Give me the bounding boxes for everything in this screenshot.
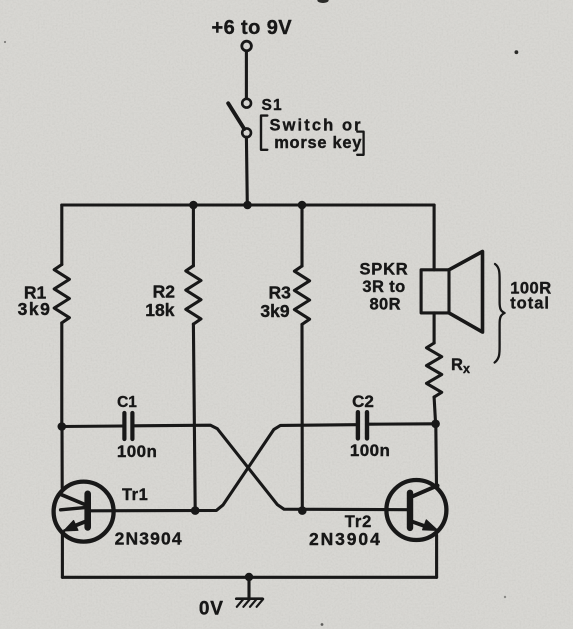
- capacitor C1: [124, 413, 132, 439]
- resistor R2: [186, 266, 201, 324]
- svg-text:C2: C2: [352, 392, 374, 411]
- node: R3/rail junction: [298, 201, 307, 210]
- node: C1/collector junction: [58, 422, 67, 431]
- wire: C1 node to C1 left plate: [62, 424, 123, 428]
- resistor Rx: [427, 343, 442, 397]
- wire: top rail: [62, 203, 434, 206]
- resistor R1: [54, 265, 69, 323]
- node: R2/base junction: [191, 506, 200, 515]
- wire: R1 to C1 node: [60, 323, 63, 427]
- wire: rail to R2: [192, 205, 195, 266]
- svg-text:3k9: 3k9: [18, 299, 52, 319]
- wire: Rx to C2 node: [434, 397, 436, 424]
- wire: C2 to Tr1 base (cross-coupling): [91, 425, 355, 511]
- node: C2/collector junction: [431, 420, 440, 429]
- svg-text:0V: 0V: [199, 598, 224, 619]
- wire: node to Tr1 collector: [60, 427, 63, 489]
- wire: rail to speaker: [433, 205, 436, 270]
- brace for 100R total: [495, 264, 505, 363]
- svg-text:C1: C1: [117, 394, 137, 411]
- svg-text:morse key: morse key: [274, 134, 362, 152]
- svg-text:2N3904: 2N3904: [115, 528, 183, 548]
- wire: terminal to switch: [245, 52, 248, 99]
- capacitor C2: [358, 412, 367, 438]
- svg-text:80R: 80R: [369, 295, 400, 313]
- wire: speaker to Rx: [433, 313, 436, 343]
- node: R3/base junction: [298, 506, 307, 515]
- wire: rail to R1: [60, 205, 63, 265]
- ground symbol: [236, 577, 263, 607]
- transistor Tr2: [386, 480, 446, 540]
- wire: node to Tr2 collector: [434, 424, 438, 487]
- wire: bottom rail: [62, 576, 436, 579]
- wire: switch to top rail: [245, 137, 249, 204]
- svg-text:100n: 100n: [350, 441, 390, 460]
- svg-text:R3: R3: [269, 283, 292, 303]
- svg-text:Tr1: Tr1: [122, 486, 148, 504]
- node: switch/rail junction: [243, 201, 252, 210]
- svg-text:18k: 18k: [145, 300, 174, 320]
- wire: C1 to Tr2 base (cross-coupling): [135, 425, 407, 510]
- wire: C2 right plate to node: [369, 422, 435, 426]
- svg-text:3k9: 3k9: [260, 301, 289, 321]
- svg-text:3R to: 3R to: [362, 278, 405, 296]
- resistor R3: [294, 266, 309, 324]
- wire: R2 to base line: [193, 324, 195, 511]
- switch S1: [228, 99, 251, 137]
- svg-text:S1: S1: [262, 97, 283, 114]
- svg-text:R2: R2: [153, 282, 176, 302]
- svg-text:SPKR: SPKR: [359, 261, 408, 279]
- svg-text:2N3904: 2N3904: [309, 529, 382, 549]
- svg-text:total: total: [510, 295, 550, 313]
- wire: rail to R3: [300, 205, 303, 266]
- svg-text:100n: 100n: [117, 442, 157, 461]
- speaker SPKR: [421, 252, 482, 333]
- supply terminal: [242, 41, 252, 51]
- node: ground junction: [245, 573, 253, 581]
- note [Switch or morse key]: [261, 116, 364, 155]
- svg-text:Switch or: Switch or: [270, 116, 363, 134]
- wire: Tr2 emitter to bottom rail: [435, 535, 438, 577]
- node: R2/rail junction: [189, 201, 198, 210]
- svg-text:R: R: [451, 356, 463, 374]
- svg-text:+6 to 9V: +6 to 9V: [212, 17, 293, 39]
- wire: Tr1 emitter to bottom rail: [61, 534, 64, 577]
- transistor Tr1: [54, 482, 114, 542]
- wire: R3 to base line: [300, 324, 303, 510]
- svg-text:x: x: [463, 362, 470, 376]
